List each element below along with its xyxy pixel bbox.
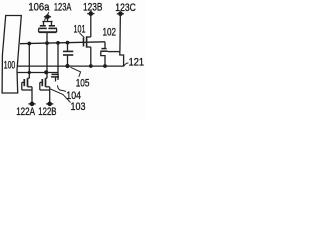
leader 101 [80,33,85,38]
terminal 122B [46,87,53,106]
leader 121 [124,63,128,66]
svg-text:101: 101 [74,24,86,36]
svg-text:122A: 122A [16,106,35,118]
leader 105 [71,67,81,77]
capacitor C105 [63,43,73,66]
terminal 123B [87,11,94,37]
wire 101 source to bottom bus [90,47,92,66]
wire bottom rail [17,72,58,74]
protection device 106a [38,22,57,44]
leader 106a [44,12,49,20]
svg-text:123B: 123B [83,2,103,14]
block 100 [2,16,21,94]
leader 104 [58,85,67,91]
svg-text:106a: 106a [28,2,50,14]
transistor T5 (small device at W1) [51,74,59,81]
svg-text:103: 103 [71,101,86,113]
svg-text:121: 121 [129,57,144,69]
terminal 123C [117,11,124,51]
node C dots on bottom rail [28,70,49,74]
svg-text:100: 100 [4,60,15,72]
svg-text:123A: 123A [54,2,72,14]
transistor 102 [100,42,123,66]
wire vertical V2 [28,44,30,79]
node B dots on bottom bus [65,64,107,68]
node A dots on top bus [27,41,69,46]
svg-text:105: 105 [76,77,90,89]
leader 103 [51,89,71,103]
transistor 101 [84,36,91,47]
terminal 122A [28,87,35,106]
wire top bus [20,42,105,44]
wire vertical V3 [46,43,48,78]
svg-text:122B: 122B [38,106,56,118]
wire bottom bus (output net) [17,65,124,67]
svg-text:123C: 123C [115,2,136,14]
transistor 104 (right bottom) [40,78,50,90]
transistor 103 (left bottom) [22,78,32,90]
svg-text:102: 102 [103,26,117,38]
wire W1 [57,43,59,80]
terminal 123A [44,14,51,21]
